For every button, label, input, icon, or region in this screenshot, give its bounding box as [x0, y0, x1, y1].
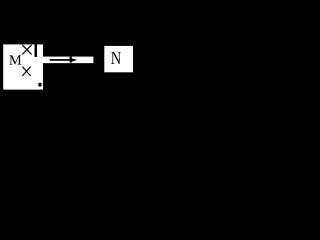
- background: [0, 0, 136, 132]
- box M lower merge: [34, 57, 38, 90]
- divider line: [35, 44, 37, 56]
- wire band (arrow background): [43, 57, 94, 64]
- arrow shaft: [50, 59, 72, 61]
- box M right column: [37, 44, 43, 89]
- diagram: region M with defect marks, transition arrow, region N: [0, 0, 136, 132]
- label M: [9, 55, 21, 64]
- label N: [111, 52, 121, 64]
- box M body: [3, 44, 34, 89]
- defect x upper: [22, 45, 31, 55]
- arrow crossbar: [70, 57, 72, 63]
- terminal square: [38, 83, 41, 87]
- defect x lower: [22, 67, 30, 76]
- box N body: [104, 46, 133, 72]
- arrow head: [72, 58, 77, 62]
